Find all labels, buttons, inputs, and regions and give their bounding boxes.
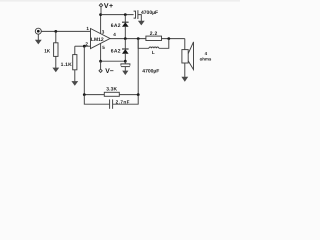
ground (speaker)	[181, 77, 188, 82]
ground (C2)	[122, 71, 128, 76]
node V- diode junction	[124, 60, 127, 63]
wire op-amp output	[110, 38, 185, 40]
capacitor C3 2.7nF left plate	[109, 99, 111, 108]
svg-text:3: 3	[102, 30, 105, 35]
node input junction	[54, 30, 57, 33]
top border band	[0, 0, 240, 2]
speaker LS1 body	[182, 50, 188, 63]
wire speaker to ground	[184, 63, 186, 77]
wire feedback rail	[84, 94, 138, 96]
ground (input jack)	[35, 40, 42, 45]
inductor L coil	[149, 47, 159, 48]
diode D2 cathode bar	[122, 48, 129, 50]
wire V- rail	[101, 60, 126, 62]
ground (C1)	[138, 21, 145, 26]
capacitor C3 2.7nF right plate	[112, 99, 114, 108]
wire C1 to ground	[138, 15, 141, 21]
svg-text:V+: V+	[104, 3, 114, 10]
node V- junction	[99, 60, 102, 63]
svg-text:6A2: 6A2	[111, 49, 121, 55]
wire pin 3 V+	[100, 15, 102, 34]
svg-text:ohms: ohms	[200, 57, 212, 62]
diode D2 triangle	[122, 49, 129, 54]
svg-text:5: 5	[102, 45, 105, 50]
svg-text:6A2: 6A2	[111, 23, 121, 29]
node output RL junction	[167, 37, 170, 40]
capacitor C1 minus plate	[137, 10, 139, 19]
wire pin 2 horizontal	[75, 45, 91, 47]
wire junction to resistor R1	[55, 31, 57, 42]
terminal V+ diamond	[99, 4, 102, 7]
diode D1 cathode bar	[122, 21, 129, 23]
node feedback rail left	[83, 93, 86, 96]
svg-text:2.7nF: 2.7nF	[116, 100, 130, 105]
wire cap branch right	[113, 95, 139, 105]
capacitor C1 4700uF plus plate	[134, 11, 136, 18]
capacitor C2 minus plate	[121, 64, 130, 66]
svg-text:V−: V−	[105, 68, 114, 75]
wire D1 to output	[124, 27, 126, 39]
node feedback rail right	[137, 93, 140, 96]
diode D1 triangle	[122, 22, 129, 27]
wire V- terminal drop	[100, 61, 102, 69]
diode D1 6A2 wire from V+	[124, 15, 126, 23]
wire input to op-amp pin 1	[41, 30, 90, 32]
wire jack to ground	[37, 34, 39, 40]
capacitor C2 4700uF wire from V- rail	[124, 61, 126, 64]
speaker LS1 cone	[188, 42, 193, 70]
wire pin 5 V-	[100, 43, 102, 61]
svg-text:4700µF: 4700µF	[141, 10, 158, 16]
wire inductor branch left	[138, 39, 149, 49]
svg-text:1.1K: 1.1K	[61, 62, 73, 68]
svg-text:3.3K: 3.3K	[106, 86, 117, 92]
svg-text:1: 1	[86, 26, 89, 31]
resistor R3 2.2 body	[146, 36, 162, 40]
svg-text:L: L	[152, 50, 155, 55]
wire V+ terminal drop	[100, 7, 102, 15]
wire R1 to ground	[55, 56, 57, 68]
svg-text:1K: 1K	[44, 48, 51, 53]
diode D2 6A2 wire from output	[124, 39, 126, 49]
wire R2 to ground	[74, 70, 76, 82]
node V+ junction	[99, 13, 102, 16]
wire pin2 to resistor R2	[74, 46, 76, 54]
wire feedback tap vertical	[137, 39, 139, 95]
svg-text:4700µF: 4700µF	[142, 69, 159, 75]
wire cap branch left	[84, 95, 109, 105]
wire feedback vertical drop	[83, 46, 85, 94]
svg-text:2: 2	[85, 41, 88, 46]
resistor R2 1.1K body	[73, 55, 77, 70]
node output diode junction	[124, 37, 127, 40]
wire C2 to ground	[124, 67, 126, 71]
wire output to speaker	[184, 39, 186, 50]
capacitor C2 plus plate	[121, 66, 130, 68]
node V+ diode junction	[124, 13, 127, 16]
wire D2 to V- rail	[124, 54, 126, 61]
op-amp U1 LM12 triangle	[91, 29, 111, 49]
svg-text:LM12: LM12	[91, 37, 104, 43]
svg-text:2.2: 2.2	[150, 31, 158, 37]
node feedback junction	[83, 45, 86, 48]
node output feedback junction	[137, 37, 140, 40]
ground (R1)	[52, 68, 59, 73]
terminal V- diamond	[99, 69, 102, 72]
svg-text:4: 4	[113, 32, 116, 37]
wire inductor branch right	[159, 39, 169, 49]
resistor R1 1K body	[54, 43, 58, 57]
ground (R2)	[71, 81, 78, 86]
wire V+ rail	[101, 14, 134, 16]
resistor R4 3.3K body	[104, 92, 119, 96]
input jack J1	[35, 28, 41, 34]
